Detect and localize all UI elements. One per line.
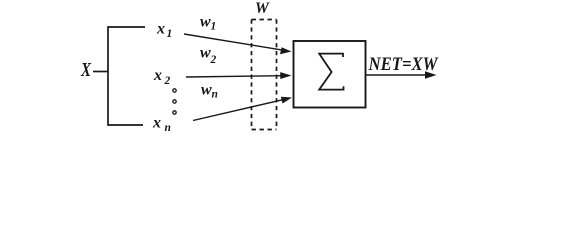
svg-text:X: X <box>80 59 91 81</box>
wire tick from X to bracket <box>93 71 108 73</box>
svg-text:1: 1 <box>211 21 217 33</box>
svg-text:NET=XW: NET=XW <box>368 55 439 75</box>
weight label w1 <box>200 13 216 32</box>
svg-text:W: W <box>255 0 270 17</box>
wire output arrow <box>366 71 437 78</box>
svg-text:2: 2 <box>164 75 171 87</box>
node xn input label <box>152 115 171 134</box>
node x1 input label <box>156 21 172 40</box>
wire arrow from x2 to summation <box>186 72 292 79</box>
bracket grouping inputs <box>108 27 145 125</box>
weight label wn <box>201 82 218 101</box>
summation unit box U1 <box>294 41 366 108</box>
summation sigma symbol <box>319 54 343 90</box>
wire arrow from xn to summation <box>193 97 292 121</box>
ellipsis dots between x2 and xn <box>173 89 176 92</box>
weight label w2 <box>200 45 217 66</box>
svg-text:2: 2 <box>210 54 217 66</box>
node x2 input label <box>153 67 171 87</box>
svg-text:n: n <box>165 122 171 134</box>
svg-text:x: x <box>156 21 165 38</box>
svg-text:x: x <box>153 67 162 84</box>
svg-text:n: n <box>212 88 218 100</box>
svg-text:w: w <box>200 13 211 30</box>
svg-text:w: w <box>201 82 212 99</box>
svg-text:w: w <box>200 45 211 62</box>
wire arrow from x1 to summation <box>184 34 292 54</box>
weight matrix dashed box <box>252 20 277 130</box>
svg-text:1: 1 <box>167 28 173 40</box>
svg-text:x: x <box>152 115 161 132</box>
